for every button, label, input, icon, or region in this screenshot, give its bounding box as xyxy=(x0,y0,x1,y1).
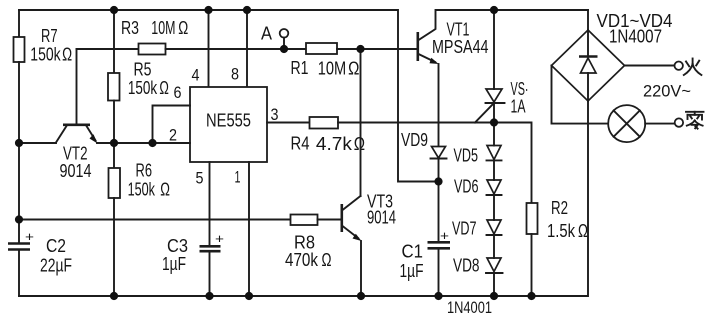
svg-text:VD6: VD6 xyxy=(454,177,479,197)
transistor VT2 bar xyxy=(63,124,90,127)
wire bridge left corner down to lamp xyxy=(552,66,609,124)
svg-text:8: 8 xyxy=(231,65,239,84)
wire R7 bottom down left rail xyxy=(18,62,20,244)
thyristor VS xyxy=(475,89,505,146)
svg-text:1.5k: 1.5k xyxy=(547,221,576,241)
wire x114 from top bus to R5 xyxy=(113,10,115,73)
junction dot ground bus C1 xyxy=(434,292,442,300)
resistor R2 xyxy=(527,203,538,234)
junction dot left rail C2 top xyxy=(15,215,23,223)
junction dot ground bus VD8 xyxy=(490,292,498,300)
svg-text:1N4007: 1N4007 xyxy=(609,27,662,47)
resistor R7 xyxy=(14,37,25,62)
svg-text:R3: R3 xyxy=(121,18,139,38)
svg-text:1µF: 1µF xyxy=(400,261,424,281)
wire C1 bottom to ground bus xyxy=(438,249,440,297)
capacitor C2 xyxy=(8,229,34,250)
junction dot top bus x114 xyxy=(110,6,118,14)
svg-text:C1: C1 xyxy=(402,242,424,262)
wire R3 right to R1 left crossing pins 4,8 xyxy=(166,48,307,50)
svg-text:Ω: Ω xyxy=(322,250,332,270)
junction dot VS cathode gate node xyxy=(490,118,498,126)
junction dot VT2 emitter R5 R6 xyxy=(110,139,118,147)
junction dot ground bus R6 xyxy=(110,292,118,300)
wire VT1 emitter down to VD9 xyxy=(438,64,440,146)
diode VD5 xyxy=(487,146,502,161)
svg-text:Ω: Ω xyxy=(178,18,188,38)
svg-text:R6: R6 xyxy=(136,161,153,181)
junction dot top bus pin4 xyxy=(204,6,212,14)
svg-text:4.7k: 4.7k xyxy=(316,134,353,154)
wire ground bottom bus xyxy=(19,101,588,296)
transistor Q VT3 bar xyxy=(340,204,343,232)
transistor VT1 collector leg to right top bus xyxy=(419,10,589,40)
wire pin1 stub down to ground bus xyxy=(248,162,250,296)
svg-text:470k: 470k xyxy=(285,250,319,270)
wire R6 bottom to ground bus xyxy=(113,198,115,296)
svg-text:10M: 10M xyxy=(318,59,346,79)
resistor R8 xyxy=(291,215,318,226)
diode VD6 xyxy=(487,180,502,195)
wire node A stem xyxy=(283,38,285,49)
svg-text:VD8: VD8 xyxy=(453,256,480,276)
node A terminal circle xyxy=(280,29,289,38)
wire VT2 emitter node down to R6 xyxy=(113,143,115,168)
diode VD9 xyxy=(431,147,447,159)
svg-text:1N4001: 1N4001 xyxy=(447,298,492,317)
svg-text:R1: R1 xyxy=(291,58,309,78)
svg-text:VD9: VD9 xyxy=(401,130,428,150)
wire C2 bottom to ground bus xyxy=(18,250,20,296)
svg-text:R5: R5 xyxy=(134,60,152,80)
wire NE555 pin4 stub to top bus xyxy=(208,10,210,87)
svg-text:10M: 10M xyxy=(151,18,175,38)
transistor Q VT2 base lead vertical xyxy=(76,49,78,124)
wire pin5 stub down to C3 xyxy=(209,162,211,246)
svg-text:1: 1 xyxy=(235,168,241,187)
wire VD9 cathode to C1 top junction xyxy=(438,159,440,243)
capacitor C1 xyxy=(428,228,451,248)
wire lamp to neutral terminal xyxy=(645,123,674,125)
wire R2 bottom to ground bus xyxy=(531,234,533,296)
svg-text:+: + xyxy=(215,231,224,246)
svg-text:VD5: VD5 xyxy=(454,146,479,166)
wire VD6-VD7 xyxy=(493,195,495,220)
wire VD5-VD6 xyxy=(493,160,495,180)
wire VT3 emitter to ground bus xyxy=(360,241,362,296)
wire R5 bottom to VT2 emitter node xyxy=(113,101,115,144)
transistor VT3 emitter leg with arrow xyxy=(343,226,359,238)
svg-text:4: 4 xyxy=(192,66,200,85)
svg-text:NE555: NE555 xyxy=(206,110,251,131)
svg-text:1A: 1A xyxy=(511,97,526,117)
lamp xyxy=(608,105,645,142)
svg-text:150k: 150k xyxy=(30,45,61,65)
wire R4 right to thyristor gate node xyxy=(338,122,494,124)
junction dot left rail VT2 collector xyxy=(15,139,23,147)
wire top bus left segment with corner down to C1/VD9 junction xyxy=(19,10,439,182)
junction dot ground bus C3 xyxy=(205,292,213,300)
junction dot node A xyxy=(280,45,288,53)
wire R1 right to VT1 base xyxy=(337,48,418,50)
svg-text:Ω: Ω xyxy=(578,221,588,241)
svg-text:3: 3 xyxy=(271,105,279,124)
resistor R3 xyxy=(139,44,166,55)
svg-text:220V~: 220V~ xyxy=(643,82,691,101)
svg-text:A: A xyxy=(261,24,272,44)
diode VD7 xyxy=(487,220,502,235)
wire NE555 pin8 stub to top bus xyxy=(246,10,248,87)
svg-text:2: 2 xyxy=(169,126,177,145)
wire gate node to R2 xyxy=(494,123,532,204)
wire C3 bottom to ground bus xyxy=(209,251,211,296)
svg-text:6: 6 xyxy=(174,83,182,102)
svg-text:9014: 9014 xyxy=(60,161,92,181)
wire R8 to VT3 base xyxy=(318,219,342,221)
svg-text:R2: R2 xyxy=(551,198,568,218)
junction dot R1-VT1 base xyxy=(356,45,364,53)
svg-text:+: + xyxy=(440,228,449,243)
bridge rectifier VD1-VD4 diamond xyxy=(552,30,625,101)
junction dot top bus VS anode xyxy=(490,6,498,14)
wire VD8 to ground bus xyxy=(493,273,495,296)
wire VT2 base row y49 from corner to R3 xyxy=(77,48,139,50)
transistor VT2 emitter leg with arrow xyxy=(87,126,96,141)
junction dot ground bus VT3 emitter xyxy=(357,292,365,300)
wire pin6 loop to pin2 node xyxy=(153,106,191,144)
svg-text:C3: C3 xyxy=(167,236,188,256)
resistor R4 xyxy=(310,117,339,129)
wire C2 top row from left rail to R8 xyxy=(19,219,291,221)
svg-text:+: + xyxy=(25,229,34,244)
wire VS anode from top bus xyxy=(493,10,495,89)
svg-text:C2: C2 xyxy=(46,236,66,256)
wire VT2 collector to left rail xyxy=(19,142,56,144)
svg-text:Ω: Ω xyxy=(354,134,365,154)
junction dot VD9 cathode C1 top xyxy=(434,177,442,185)
transistor VT1 emitter leg with arrow xyxy=(419,54,436,62)
svg-text:Ω: Ω xyxy=(159,78,169,98)
wire top bus right corner into bridge xyxy=(587,10,589,30)
svg-text:9014: 9014 xyxy=(367,208,396,228)
junction dot ground bus R2 xyxy=(527,292,535,300)
svg-text:VD7: VD7 xyxy=(452,219,477,239)
svg-text:Ω: Ω xyxy=(62,45,72,65)
wire VD7-VD8 xyxy=(493,235,495,258)
svg-text:150k: 150k xyxy=(128,180,156,200)
junction dot ground bus pin1 xyxy=(245,292,253,300)
svg-text:22µF: 22µF xyxy=(40,256,72,276)
svg-text:R4: R4 xyxy=(291,134,310,154)
resistor R5 xyxy=(108,73,120,101)
svg-text:150k: 150k xyxy=(128,78,158,98)
svg-text:1µF: 1µF xyxy=(162,254,186,274)
label neutral 零 xyxy=(686,112,704,129)
junction dot pin6 pin2 xyxy=(148,139,156,147)
resistor R1 xyxy=(306,43,337,54)
transistor Q VT1 bar xyxy=(416,32,419,61)
wire A-R1 node down to VT3 collector xyxy=(360,49,362,196)
svg-text:R7: R7 xyxy=(41,26,58,46)
svg-text:5: 5 xyxy=(196,169,204,188)
op-amp U1 NE555 box xyxy=(190,87,267,162)
wire bridge right corner to live terminal xyxy=(625,65,675,67)
svg-text:Ω: Ω xyxy=(160,180,170,200)
resistor R6 xyxy=(109,168,121,198)
wire pin3 to R4 xyxy=(267,122,310,124)
transistor VT3 collector leg xyxy=(343,196,361,210)
terminal neutral circle xyxy=(675,118,683,126)
diode VD8 xyxy=(486,258,503,273)
svg-text:MPSA44: MPSA44 xyxy=(432,37,489,57)
wire pin2 to VT2 emitter xyxy=(97,142,190,144)
terminal live circle xyxy=(675,61,683,69)
label live 火 xyxy=(684,59,702,76)
svg-text:Ω: Ω xyxy=(348,59,359,79)
transistor VT2 collector leg xyxy=(56,126,67,143)
wire left vertical rail x19 xyxy=(18,10,20,37)
capacitor C3 xyxy=(200,231,225,251)
junction dot top bus pin8 xyxy=(243,6,251,14)
